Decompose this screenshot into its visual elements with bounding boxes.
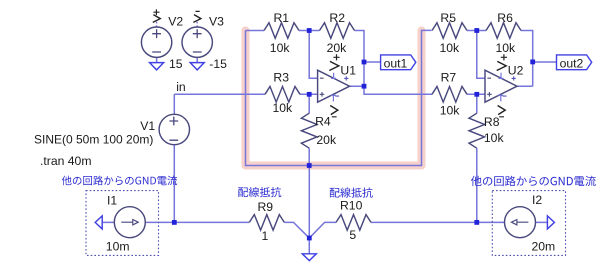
svg-text:U1: U1 <box>340 64 356 78</box>
svg-text:R8: R8 <box>484 115 500 129</box>
svg-text:V2: V2 <box>168 15 183 29</box>
svg-text:10m: 10m <box>106 239 130 253</box>
svg-text:SINE(0 50m 100 20m): SINE(0 50m 100 20m) <box>34 132 153 146</box>
svg-text:R3: R3 <box>273 70 289 84</box>
svg-text:10k: 10k <box>484 131 505 145</box>
svg-text:-15: -15 <box>209 57 227 71</box>
svg-text:R2: R2 <box>329 11 345 25</box>
svg-text:U2: U2 <box>508 64 524 78</box>
svg-text:10k: 10k <box>440 103 461 117</box>
svg-text:V3: V3 <box>209 15 224 29</box>
svg-text:10k: 10k <box>440 41 461 55</box>
svg-text:I1: I1 <box>107 193 117 207</box>
svg-text:in: in <box>176 80 186 94</box>
svg-text:R5: R5 <box>440 11 456 25</box>
svg-text:10k: 10k <box>270 41 291 55</box>
svg-text:out2: out2 <box>560 57 584 71</box>
svg-text:20k: 20k <box>327 41 348 55</box>
svg-text:15: 15 <box>169 57 183 71</box>
svg-text:R4: R4 <box>315 114 331 128</box>
svg-text:10k: 10k <box>273 101 294 115</box>
svg-text:.tran 40m: .tran 40m <box>40 154 91 168</box>
svg-text:R6: R6 <box>497 11 513 25</box>
svg-text:10k: 10k <box>496 41 517 55</box>
svg-text:I2: I2 <box>532 193 542 207</box>
svg-text:out1: out1 <box>384 57 408 71</box>
svg-text:20k: 20k <box>316 133 337 147</box>
svg-text:5: 5 <box>349 228 356 242</box>
svg-text:1: 1 <box>262 229 269 243</box>
svg-text:V1: V1 <box>140 119 155 133</box>
svg-text:R1: R1 <box>274 11 290 25</box>
svg-text:R9: R9 <box>258 200 274 214</box>
svg-text:20m: 20m <box>532 239 556 253</box>
svg-text:R10: R10 <box>340 198 363 212</box>
svg-text:R7: R7 <box>441 71 457 85</box>
